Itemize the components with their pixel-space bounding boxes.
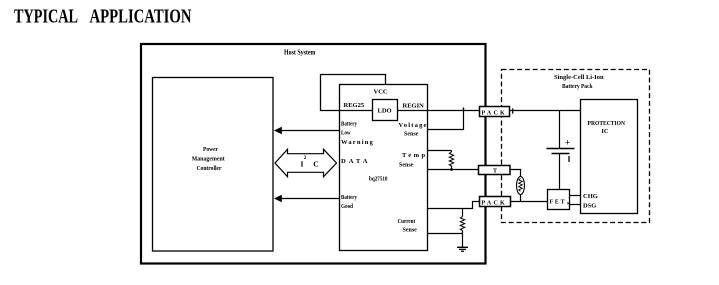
arrow battery good xyxy=(274,195,340,203)
wire to ground xyxy=(462,234,464,248)
svg-text:Low: Low xyxy=(341,130,351,137)
svg-text:Good: Good xyxy=(341,203,353,210)
pin label temp sense xyxy=(399,152,428,169)
svg-text:CHG: CHG xyxy=(583,193,598,200)
svg-text:Sense: Sense xyxy=(403,228,418,234)
wire FET DSG xyxy=(568,204,581,206)
svg-text:PROTECTION: PROTECTION xyxy=(588,120,626,127)
svg-text:Controller: Controller xyxy=(197,165,222,172)
svg-text:REGIN: REGIN xyxy=(403,103,425,110)
wire temp sense lower to T xyxy=(428,169,479,171)
svg-text:Voltage: Voltage xyxy=(399,122,428,129)
resistor R-temp xyxy=(449,151,453,170)
svg-text:Temp: Temp xyxy=(402,152,428,159)
wire REGIN to PACK+ xyxy=(340,110,480,112)
FET Q1 xyxy=(548,190,570,210)
battery cell B1 xyxy=(547,138,575,163)
LDO U2 xyxy=(373,100,398,121)
svg-text:Current: Current xyxy=(398,218,416,225)
svg-text:Host System: Host System xyxy=(284,47,316,56)
pin label voltage sense xyxy=(399,122,428,138)
svg-text:s: s xyxy=(567,202,569,207)
svg-text:VCC: VCC xyxy=(374,89,388,96)
resistor R-sense xyxy=(460,209,464,234)
wire battery top xyxy=(559,111,561,149)
svg-text:REG25: REG25 xyxy=(344,102,365,109)
gas gauge IC bq27510 xyxy=(340,85,428,251)
wire voltage sense xyxy=(428,111,464,130)
svg-text:Sense: Sense xyxy=(404,132,419,138)
wire REG25 loop to VCC xyxy=(321,75,386,111)
svg-text:TYPICAL: TYPICAL xyxy=(14,6,78,28)
pin label battery low warning xyxy=(341,121,374,147)
wire PACK- to current sense xyxy=(428,202,480,209)
svg-text:Power: Power xyxy=(203,146,218,153)
I2C double arrow xyxy=(275,149,337,176)
svg-text:DSG: DSG xyxy=(583,203,596,210)
svg-text:Battery: Battery xyxy=(341,194,358,201)
wire current sense lower xyxy=(428,233,463,235)
pin label battery good xyxy=(341,194,358,210)
ground xyxy=(457,247,468,251)
svg-text:IC: IC xyxy=(601,128,609,135)
svg-text:T: T xyxy=(493,169,497,175)
battery pack dashed box xyxy=(502,70,650,223)
protection IC xyxy=(581,100,638,214)
pin label current sense xyxy=(398,218,418,234)
thermistor RT1 xyxy=(517,177,525,202)
node tick voltage junction xyxy=(463,108,465,111)
svg-text:Management: Management xyxy=(192,156,226,163)
wire battery bottom to FET xyxy=(559,154,561,190)
svg-text:Battery Pack: Battery Pack xyxy=(562,83,593,90)
wire PACK- to FET xyxy=(511,201,548,203)
svg-text:APPLICATION: APPLICATION xyxy=(90,6,192,28)
wire temp sense upper xyxy=(428,150,452,152)
svg-text:PACK: PACK xyxy=(482,111,507,117)
PMC box xyxy=(153,78,274,252)
wire T to thermistor xyxy=(510,170,521,178)
host system box xyxy=(141,44,486,264)
svg-text:Sense: Sense xyxy=(399,163,414,169)
terminal T xyxy=(479,166,511,175)
svg-text:FET: FET xyxy=(550,200,567,206)
svg-text:bq27510: bq27510 xyxy=(369,176,388,183)
svg-text:Single-Cell Li-Ion: Single-Cell Li-Ion xyxy=(554,74,604,81)
svg-text:Warning: Warning xyxy=(341,139,374,146)
terminal PACK- xyxy=(480,197,511,207)
svg-text:LDO: LDO xyxy=(378,108,392,115)
terminal PACK+ xyxy=(480,107,513,117)
PMC label xyxy=(192,146,226,172)
svg-text:Battery: Battery xyxy=(341,121,358,128)
svg-text:DATA: DATA xyxy=(341,158,370,165)
svg-text:PACK: PACK xyxy=(482,201,507,207)
svg-text:+: + xyxy=(565,138,570,148)
node junction dot xyxy=(450,168,453,171)
arrow battery low warning xyxy=(274,127,340,135)
svg-text:I C: I C xyxy=(301,160,323,169)
wire PACK+ to protection ic xyxy=(510,110,581,112)
wire FET CHG xyxy=(568,195,581,197)
